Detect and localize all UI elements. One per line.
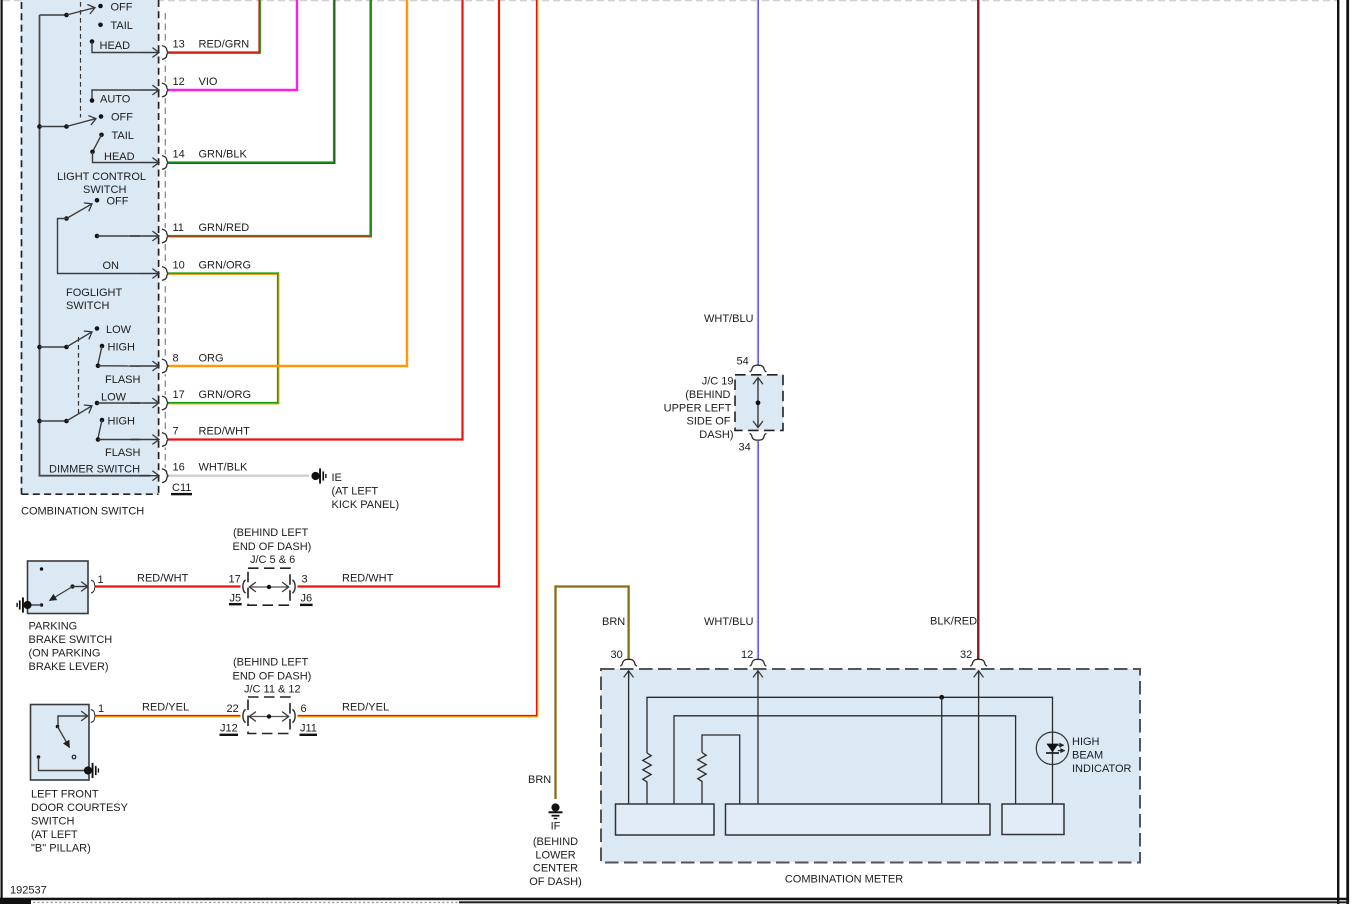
wire RED/YEL J11 to riser: [298, 0, 538, 716]
svg-text:13: 13: [173, 39, 185, 51]
LED cathode bar: [1046, 752, 1059, 754]
svg-text:BRN: BRN: [528, 774, 551, 786]
svg-text:LOW: LOW: [101, 391, 127, 403]
svg-text:54: 54: [737, 356, 749, 368]
svg-text:11: 11: [173, 222, 184, 234]
meter block left: [616, 804, 715, 835]
svg-text:HIGH: HIGH: [108, 341, 136, 353]
J5 female half: [243, 580, 246, 593]
parking brake pin 1 brace: [91, 580, 96, 593]
svg-text:16: 16: [173, 462, 185, 474]
resistor R2 with bracket to middle block: [702, 735, 740, 805]
pin 11 brace: [162, 229, 169, 243]
vertical from junction to block: [941, 697, 943, 804]
svg-text:(AT LEFT: (AT LEFT: [332, 486, 379, 498]
svg-text:J5: J5: [230, 593, 242, 605]
svg-text:FOGLIGHT: FOGLIGHT: [66, 287, 123, 299]
wire GRN/RED pin 11: [169, 0, 371, 236]
pin 12 arrow: [140, 89, 159, 91]
svg-text:WHT/BLU: WHT/BLU: [704, 616, 754, 628]
svg-text:HIGH: HIGH: [1072, 736, 1100, 748]
svg-text:BLK/RED: BLK/RED: [930, 616, 977, 628]
svg-text:END OF DASH): END OF DASH): [233, 670, 312, 682]
svg-text:AUTO: AUTO: [100, 94, 131, 106]
parking brake pin 1 arrow: [73, 586, 88, 588]
svg-text:GRN/BLK: GRN/BLK: [199, 149, 248, 161]
svg-text:12: 12: [173, 76, 185, 88]
svg-text:INDICATOR: INDICATOR: [1072, 763, 1132, 775]
svg-text:SWITCH: SWITCH: [66, 300, 109, 312]
svg-text:LEFT FRONT: LEFT FRONT: [31, 789, 99, 801]
junction connector J/C 5-6 dashed box: [248, 568, 290, 605]
wire RED/GRN pin 13: [169, 0, 260, 53]
pin 12 brace: [162, 83, 169, 97]
J/C 19 pin 54 bracket: [750, 365, 767, 372]
parking brake wire to ground: [29, 604, 42, 606]
svg-text:END OF DASH): END OF DASH): [233, 541, 312, 553]
svg-text:FLASH: FLASH: [105, 374, 141, 386]
svg-text:RED/GRN: RED/GRN: [199, 39, 250, 51]
foglight contact OFF: [95, 198, 100, 203]
svg-text:14: 14: [173, 149, 185, 161]
svg-text:CENTER: CENTER: [533, 863, 578, 875]
door switch pin 1 brace: [91, 710, 96, 723]
dimmer B contact LOW: [95, 401, 100, 406]
svg-text:7: 7: [173, 426, 179, 438]
svg-text:OF DASH): OF DASH): [529, 876, 582, 888]
svg-text:BRAKE SWITCH: BRAKE SWITCH: [29, 634, 113, 646]
resistor R1: [643, 753, 651, 805]
wire contact to pin 11: [97, 235, 140, 237]
faint bottom dotted segment: [33, 901, 459, 903]
LED triangle: [1046, 744, 1058, 753]
parking brake switch box: [28, 561, 89, 614]
pin 17 arrow: [130, 402, 159, 404]
door switch arm: [58, 727, 70, 748]
dimmer B wiper arm: [67, 406, 93, 421]
wire AUTO to pin 12: [92, 90, 140, 100]
contact OFF upper: [98, 4, 103, 9]
svg-text:BEAM: BEAM: [1072, 749, 1103, 761]
parking brake inner dot: [40, 567, 43, 570]
svg-text:RED/YEL: RED/YEL: [342, 702, 389, 714]
wire to pin 8: [98, 365, 140, 367]
pin 11 arrow: [130, 235, 159, 237]
parking brake switch arm: [50, 587, 73, 601]
svg-text:(AT LEFT: (AT LEFT: [31, 829, 78, 841]
svg-text:22: 22: [227, 703, 239, 715]
svg-text:RED/WHT: RED/WHT: [342, 573, 394, 585]
pin 14 brace: [162, 156, 169, 170]
svg-text:TAIL: TAIL: [112, 130, 134, 142]
svg-text:J/C 5 & 6: J/C 5 & 6: [250, 554, 295, 566]
wire BRN: [556, 587, 629, 800]
switch common bus wire: [40, 15, 151, 476]
svg-text:3: 3: [302, 574, 308, 586]
svg-text:(BEHIND LEFT: (BEHIND LEFT: [233, 657, 308, 669]
contact TAIL lower: [99, 133, 104, 138]
pin 7 arrow: [130, 439, 159, 441]
svg-text:J/C 11 & 12: J/C 11 & 12: [244, 684, 301, 696]
svg-text:RED/YEL: RED/YEL: [142, 702, 189, 714]
svg-text:FLASH: FLASH: [105, 447, 141, 459]
parking brake ground: [16, 597, 31, 612]
svg-text:DOOR COURTESY: DOOR COURTESY: [31, 802, 129, 814]
dimmer B wiper feed: [40, 420, 67, 422]
wire RED/YEL door switch to J12: [96, 715, 241, 717]
pin 14 arrow: [140, 162, 159, 164]
svg-text:J/C 19: J/C 19: [702, 376, 734, 388]
page corner block bottom-left: [0, 899, 31, 904]
wire RED/WHT parking brake to J5: [96, 585, 241, 587]
J/C 5-6 internal link: [251, 586, 287, 588]
svg-text:1: 1: [98, 574, 104, 586]
connector C11 dashed line: [164, 13, 166, 479]
svg-text:10: 10: [173, 260, 185, 272]
combination switch box fill: [21, 0, 159, 495]
svg-text:J12: J12: [220, 723, 238, 735]
svg-text:J11: J11: [300, 723, 317, 735]
wire WHT/BLU upper: [756, 0, 758, 366]
pin 30 arrow: [628, 671, 630, 680]
wire HEAD to pin 14: [93, 152, 141, 163]
svg-text:IF: IF: [551, 821, 561, 833]
pin 12 wire into meter: [757, 671, 759, 805]
svg-text:KICK PANEL): KICK PANEL): [332, 499, 400, 511]
pin 7 brace: [162, 433, 169, 447]
pin 10 arrow: [140, 273, 159, 275]
svg-text:GRN/RED: GRN/RED: [199, 222, 250, 234]
svg-text:HIGH: HIGH: [108, 415, 136, 427]
J6 female half: [292, 580, 295, 593]
contact AUTO: [90, 98, 95, 103]
combination meter box fill: [601, 669, 1140, 863]
svg-text:OFF: OFF: [107, 196, 129, 208]
meter block right: [1002, 804, 1064, 835]
dimmer A link HIGH-FLASH: [98, 346, 102, 364]
combination switch box dashed border: [22, 0, 159, 494]
svg-text:(BEHIND: (BEHIND: [685, 389, 730, 401]
J/C 11-12 internal link: [251, 716, 287, 718]
dimmer A FLASH contact dot: [96, 364, 101, 369]
svg-text:OFF: OFF: [111, 112, 133, 124]
foglight wiper pivot dot: [64, 216, 69, 221]
svg-text:VIO: VIO: [199, 76, 218, 88]
svg-text:DIMMER SWITCH: DIMMER SWITCH: [49, 464, 140, 476]
faint top edge dashed line: [3, 0, 1337, 2]
LED light arrows: [1057, 744, 1064, 746]
svg-text:192537: 192537: [10, 885, 47, 897]
pin 13 arrow: [140, 52, 159, 54]
contact HEAD lower: [90, 150, 95, 155]
svg-text:C11: C11: [172, 482, 191, 494]
ground IE: [311, 468, 326, 483]
pin 16 brace: [162, 469, 169, 483]
page border right outer line: [1346, 0, 1349, 904]
svg-text:SWITCH: SWITCH: [83, 184, 126, 196]
wire to pin 7: [98, 439, 140, 441]
pin 13 brace: [162, 46, 169, 60]
svg-text:ON: ON: [103, 260, 120, 272]
wire LOW to pin 17: [97, 402, 140, 404]
pin 17 brace: [162, 396, 169, 410]
pin 16 arrow into connector: [140, 475, 159, 477]
svg-text:30: 30: [611, 649, 623, 661]
contact HEAD upper: [90, 39, 95, 44]
wire WHT/BLK pin 16: [169, 475, 310, 477]
svg-text:COMBINATION METER: COMBINATION METER: [785, 874, 903, 886]
J/C 19 internal link: [757, 379, 759, 427]
pin 12 arrow: [757, 671, 759, 680]
dimmer B FLASH contact dot: [96, 437, 101, 442]
wiper 2 pivot dot: [64, 124, 69, 129]
svg-text:(BEHIND LEFT: (BEHIND LEFT: [233, 527, 308, 539]
svg-text:LIGHT CONTROL: LIGHT CONTROL: [57, 171, 146, 183]
svg-text:SIDE OF: SIDE OF: [686, 416, 730, 428]
light control switch wiper 1 feed: [40, 14, 67, 16]
svg-text:8: 8: [173, 353, 179, 365]
svg-text:GRN/ORG: GRN/ORG: [199, 389, 252, 401]
junction connector J/C 19 box: [735, 375, 783, 431]
svg-text:WHT/BLK: WHT/BLK: [199, 462, 249, 474]
svg-text:"B" PILLAR): "B" PILLAR): [31, 843, 91, 855]
svg-text:PARKING: PARKING: [29, 621, 78, 633]
wire VIO pin 12: [169, 0, 298, 90]
svg-text:32: 32: [960, 649, 972, 661]
svg-text:17: 17: [173, 389, 185, 401]
pin 10 brace: [162, 267, 169, 281]
meter bus line 2: [674, 716, 1016, 805]
door switch open contact circle: [72, 755, 76, 759]
svg-text:HEAD: HEAD: [104, 151, 135, 163]
junction connector J/C 11-12 dashed box: [248, 697, 290, 734]
wire ORG pin 8: [169, 0, 408, 366]
svg-text:COMBINATION SWITCH: COMBINATION SWITCH: [21, 506, 144, 518]
foglight common wire to pin 10: [58, 219, 141, 274]
connector C11 brace masks: [161, 45, 171, 484]
J11 female half: [292, 709, 295, 722]
contact OFF lower group: [99, 114, 104, 119]
door switch lower contact dot: [37, 755, 41, 759]
page border left: [1, 0, 3, 899]
dimmer A contact HIGH: [100, 344, 105, 349]
svg-text:(BEHIND: (BEHIND: [533, 836, 578, 848]
svg-text:1: 1: [98, 703, 104, 715]
mechanical link dashed (light control upper): [80, 2, 82, 118]
wiper 1 pivot dot: [64, 13, 69, 18]
svg-text:(ON PARKING: (ON PARKING: [29, 648, 101, 660]
svg-text:BRAKE LEVER): BRAKE LEVER): [29, 661, 109, 673]
pin 8 arrow: [130, 365, 159, 367]
svg-text:HEAD: HEAD: [100, 40, 131, 52]
left front door courtesy switch box: [31, 705, 90, 781]
svg-text:TAIL: TAIL: [111, 20, 133, 32]
link TAIL-HEAD: [93, 135, 102, 152]
pin 32 arrow: [978, 671, 980, 680]
svg-text:J6: J6: [301, 593, 313, 605]
svg-text:RED/WHT: RED/WHT: [137, 573, 189, 585]
door switch wire to ground: [39, 757, 87, 771]
wire HEAD to pin 13: [92, 42, 140, 53]
svg-text:SWITCH: SWITCH: [31, 816, 74, 828]
dimmer A wiper pivot dot: [64, 345, 69, 350]
wiper 2 arm: [67, 119, 97, 127]
wire WHT/BLU lower: [756, 441, 758, 660]
svg-text:DASH): DASH): [699, 429, 733, 441]
door switch pivot dot: [56, 725, 60, 729]
foglight wiper arm: [67, 204, 93, 219]
svg-text:6: 6: [301, 703, 307, 715]
dimmer B contact HIGH: [100, 418, 105, 423]
dimmer A wiper feed: [40, 346, 67, 348]
svg-text:ORG: ORG: [199, 353, 224, 365]
door switch ground: [84, 763, 99, 778]
wiper 1 arm: [67, 8, 96, 15]
dimmer A bus junction dot: [37, 345, 42, 350]
svg-text:17: 17: [229, 574, 241, 586]
J12 female half: [243, 709, 246, 722]
wiper 2 feed: [40, 126, 67, 128]
dimmer A wiper arm: [67, 332, 93, 347]
svg-text:UPPER LEFT: UPPER LEFT: [664, 402, 732, 414]
svg-text:RED/WHT: RED/WHT: [199, 426, 251, 438]
high beam indicator wire: [1052, 764, 1054, 804]
mechanical link dashed (dimmer): [78, 337, 80, 414]
dimmer B wiper pivot dot: [64, 419, 69, 424]
wire BLK/RED: [977, 0, 979, 660]
combination meter dashed border: [601, 669, 1140, 863]
door switch pin 1 wire: [58, 716, 88, 727]
high beam indicator LED circle: [1036, 732, 1068, 764]
dimmer B link HIGH-FLASH: [98, 420, 102, 438]
svg-text:GRN/ORG: GRN/ORG: [199, 260, 252, 272]
parking brake contact dot: [70, 584, 74, 588]
meter block middle: [726, 804, 991, 835]
parking brake lower contact dot: [40, 603, 43, 606]
wire GRN/BLK pin 14: [169, 0, 335, 163]
page border right inner line: [1337, 0, 1339, 904]
svg-text:OFF: OFF: [111, 2, 133, 14]
pin 32 wire into meter: [978, 671, 980, 805]
pin 8 brace: [162, 359, 169, 373]
bus junction dot: [37, 124, 42, 129]
page border bottom second segment: [459, 901, 1349, 903]
wire RED/WHT pin 7: [169, 0, 463, 440]
svg-text:BRN: BRN: [602, 616, 625, 628]
wire GRN/ORG pins 10-17 loop: [169, 274, 279, 404]
contact TAIL upper: [98, 23, 103, 28]
meter bus line 1: [647, 697, 1053, 753]
dimmer B bus junction dot: [37, 419, 42, 424]
foglight ON contact dot: [95, 234, 100, 239]
J/C 19 pin 34 bracket: [750, 433, 767, 440]
ground IF: [549, 803, 563, 819]
wire RED/WHT J6 to riser: [298, 0, 500, 587]
svg-text:LOWER: LOWER: [535, 849, 575, 861]
svg-text:IE: IE: [332, 472, 342, 484]
svg-text:LOW: LOW: [106, 324, 132, 336]
pin 30 wire into meter: [628, 671, 630, 805]
junction dot on line 1: [939, 695, 944, 700]
svg-text:34: 34: [739, 442, 751, 454]
svg-text:12: 12: [741, 649, 753, 661]
page border bottom: [0, 898, 1349, 901]
svg-text:WHT/BLU: WHT/BLU: [704, 313, 754, 325]
dimmer A contact LOW: [95, 326, 100, 331]
